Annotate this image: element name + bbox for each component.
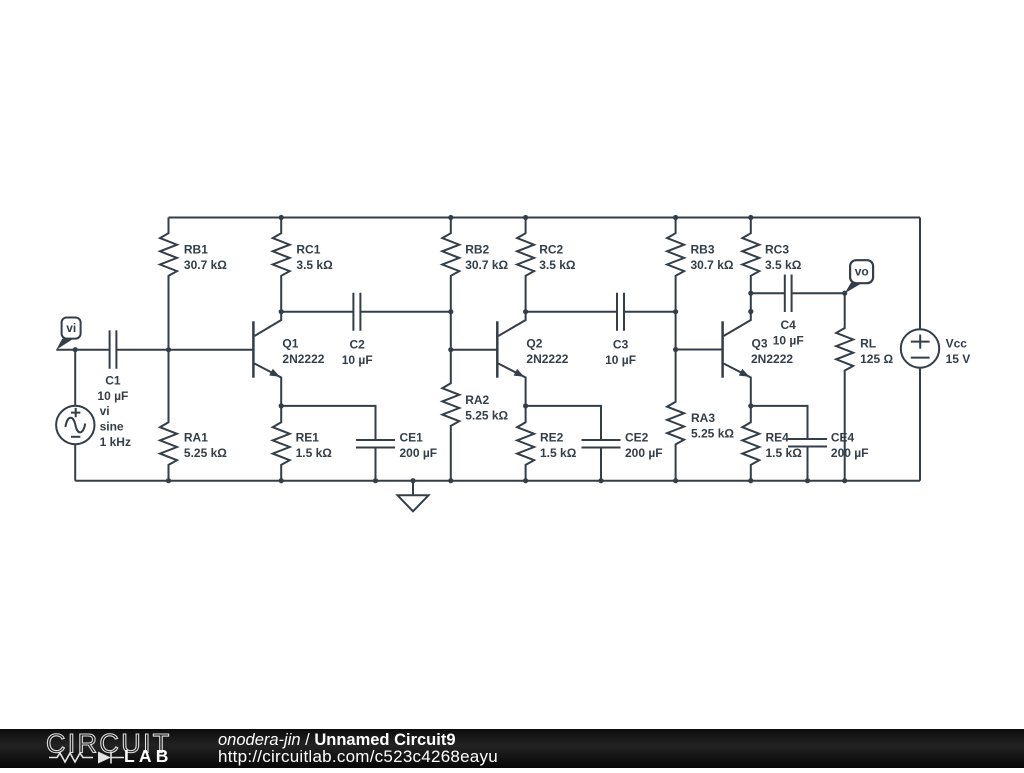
svg-text:Q2: Q2 [526,337,542,351]
svg-text:RC3: RC3 [765,243,789,257]
svg-text:RE4: RE4 [766,430,790,444]
transistor Q3 [721,321,724,377]
node base tap 1 [166,347,171,352]
resistor RB1 [160,218,177,350]
svg-text:2N2222: 2N2222 [282,352,324,366]
ground [412,481,414,496]
source Vcc 15V [919,218,921,330]
svg-text:Vcc: Vcc [946,337,968,351]
svg-text:125 Ω: 125 Ω [860,352,893,366]
svg-text:Q1: Q1 [282,337,298,351]
svg-text:C3: C3 [613,338,629,352]
svg-text:200 µF: 200 µF [400,446,438,460]
node junction input/source [73,347,78,352]
svg-text:1.5 kΩ: 1.5 kΩ [766,446,803,460]
svg-text:C2: C2 [350,338,366,352]
svg-text:RA2: RA2 [465,393,489,407]
svg-text:CE4: CE4 [831,430,855,444]
svg-text:RB1: RB1 [184,243,208,257]
transistor Q2 [496,321,499,377]
node ground junction [410,478,415,483]
svg-text:10 µF: 10 µF [773,334,804,348]
wire Q1 collector to C2 [281,311,451,313]
node RA3 ground [673,478,678,483]
svg-text:CE1: CE1 [400,430,424,444]
resistor RB2 [442,218,459,350]
logo resistor-diode symbol [49,753,93,762]
svg-text:vi: vi [100,404,110,418]
svg-text:RB3: RB3 [691,243,715,257]
resistor RC3 [742,218,759,312]
resistor RA3 [667,350,684,481]
node base tap 3 [673,347,678,352]
node RE4 ground [748,478,753,483]
resistor RC2 [517,218,534,312]
capacitor C1 [110,330,117,368]
wire Q3 emitter to CE4 [751,406,808,439]
node C4 tap [748,291,753,296]
svg-text:3.5 kΩ: 3.5 kΩ [296,258,333,272]
wire base 3 [676,349,723,351]
wire Q1 emitter to CE1 [281,406,375,440]
resistor RB3 [667,218,684,350]
source V1 vi sine [74,350,76,406]
svg-text:RE2: RE2 [540,430,564,444]
svg-text:http://circuitlab.com/c523c426: http://circuitlab.com/c523c4268eayu [218,747,498,766]
node C2 out [448,309,453,314]
node RC3 rail [748,215,753,220]
resistor RA1 [160,350,177,481]
wire base 2 [451,349,498,351]
svg-text:200 µF: 200 µF [831,446,869,460]
resistor RE2 [517,406,534,481]
node vo flag [850,260,873,283]
node RA1 ground [166,478,171,483]
svg-text:3.5 kΩ: 3.5 kΩ [539,258,576,272]
wire top power rail [169,217,921,219]
svg-text:30.7 kΩ: 30.7 kΩ [184,258,227,272]
node CE1 ground [373,478,378,483]
footer bar [0,729,1024,768]
svg-text:30.7 kΩ: 30.7 kΩ [691,258,734,272]
svg-text:5.25 kΩ: 5.25 kΩ [691,426,734,440]
node Q1 collector [279,309,284,314]
svg-text:5.25 kΩ: 5.25 kΩ [184,446,227,460]
wire Q2 emitter to CE2 [526,406,601,440]
svg-text:2N2222: 2N2222 [526,352,568,366]
node RL ground [842,478,847,483]
wire bottom ground rail [75,480,920,482]
svg-text:LAB: LAB [124,746,173,766]
wire Q3 collector to C4 [751,292,845,294]
svg-text:Q3: Q3 [752,337,768,351]
node CE2 ground [598,478,603,483]
svg-text:CE2: CE2 [625,430,649,444]
capacitor CE4 [788,439,827,447]
svg-text:2N2222: 2N2222 [751,352,793,366]
capacitor C2 [353,293,360,331]
capacitor C4 [785,275,792,313]
svg-text:RE1: RE1 [296,430,320,444]
svg-text:RL: RL [860,337,876,351]
svg-text:10 µF: 10 µF [342,353,373,367]
svg-text:1.5 kΩ: 1.5 kΩ [540,446,577,460]
capacitor CE2 [582,440,621,448]
node RB2 rail [448,215,453,220]
svg-text:RC2: RC2 [539,243,563,257]
node base tap 2 [448,347,453,352]
svg-text:C4: C4 [781,318,797,332]
svg-text:15 V: 15 V [946,352,971,366]
resistor RA2 [442,350,459,481]
svg-text:1.5 kΩ: 1.5 kΩ [296,446,333,460]
node RC1 rail [279,215,284,220]
transistor Q1 [252,321,255,377]
svg-text:vi: vi [66,321,76,335]
node vi flag [62,318,81,339]
svg-text:5.25 kΩ: 5.25 kΩ [465,408,508,422]
resistor RE4 [742,406,759,481]
node vo junction [842,291,847,296]
svg-text:vo: vo [855,265,869,279]
svg-text:RA1: RA1 [184,430,208,444]
svg-text:RC1: RC1 [296,243,320,257]
wire Q2 collector to C3 [526,311,676,313]
svg-text:10 µF: 10 µF [97,389,128,403]
svg-text:RA3: RA3 [691,411,715,425]
resistor RE1 [273,406,290,481]
node Q2 emitter [523,403,528,408]
wire input net vi [56,349,253,351]
capacitor C3 [617,293,624,331]
node RC2 rail [523,215,528,220]
svg-text:10 µF: 10 µF [605,353,636,367]
svg-text:30.7 kΩ: 30.7 kΩ [465,258,508,272]
resistor RL [836,293,853,481]
node CE4 ground [805,478,810,483]
node Q2 collector [523,309,528,314]
svg-text:RB2: RB2 [465,243,489,257]
node Q1 emitter [279,403,284,408]
node Q3 emitter [748,403,753,408]
node Q3 collector [748,309,753,314]
svg-text:200 µF: 200 µF [625,446,663,460]
svg-text:sine: sine [100,419,124,433]
svg-text:1 kHz: 1 kHz [100,435,131,449]
capacitor CE1 [356,440,395,448]
svg-text:3.5 kΩ: 3.5 kΩ [765,258,802,272]
node RB3 rail [673,215,678,220]
node RA2 ground [448,478,453,483]
svg-text:C1: C1 [105,374,121,388]
resistor RC1 [273,218,290,312]
node C3 out [673,309,678,314]
node RE1 ground [279,478,284,483]
node RE2 ground [523,478,528,483]
